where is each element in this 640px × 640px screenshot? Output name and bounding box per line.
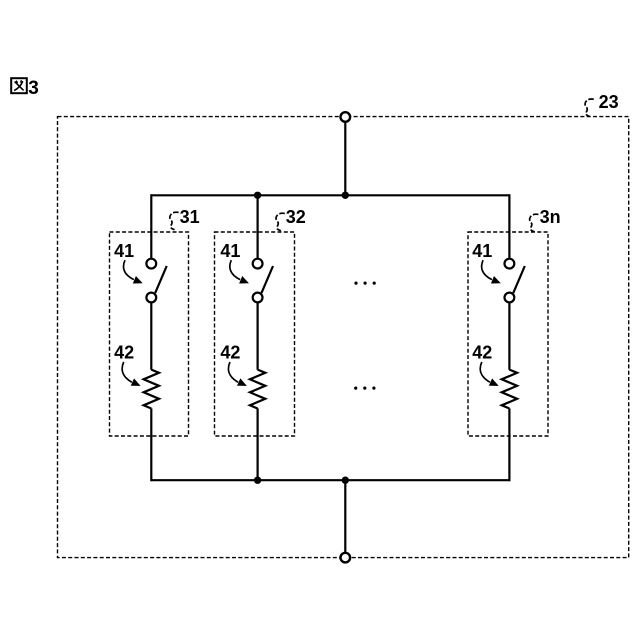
- resistor 42 (32): [250, 370, 265, 409]
- switch 41 top contact (32): [253, 259, 263, 269]
- ellipsis dots lower (between 32 and 3n): [354, 387, 375, 390]
- svg-text:42: 42: [220, 343, 240, 363]
- bottom terminal: [341, 553, 351, 563]
- arrow from label 42 (32): [228, 362, 238, 382]
- svg-text:3: 3: [28, 78, 39, 99]
- wire switch to resistor 31: [150, 302, 152, 369]
- wire bottom bus to bottom terminal: [344, 479, 346, 553]
- svg-text:32: 32: [286, 207, 306, 227]
- wire resistor to bottom bus 32: [257, 408, 259, 481]
- switch 41 top contact (31): [146, 259, 156, 269]
- svg-text:42: 42: [472, 343, 492, 363]
- leader squiggle for label 32: [276, 213, 285, 231]
- leader squiggle for label 3n: [530, 214, 539, 232]
- wire resistor to bottom bus 31: [150, 408, 152, 481]
- bottom bus wire: [151, 479, 509, 481]
- svg-text:31: 31: [180, 207, 200, 227]
- switch 41 blade (31): [155, 266, 167, 293]
- switch 41 bottom contact (32): [253, 293, 263, 303]
- top terminal: [341, 112, 351, 122]
- switch 41 bottom contact (3n): [505, 293, 515, 303]
- leader squiggle for label 31: [170, 212, 179, 230]
- svg-text:41: 41: [114, 241, 134, 261]
- ellipsis dots upper (between 32 and 3n): [354, 282, 375, 285]
- wire bus to switch 32: [257, 194, 259, 259]
- wire bus to switch 31: [150, 194, 152, 259]
- svg-text:41: 41: [472, 241, 492, 261]
- wire resistor to bottom bus 3n: [508, 408, 510, 481]
- arrow from label 41 (3n): [482, 260, 492, 279]
- switch 41 blade (32): [262, 266, 274, 293]
- figure label 図3: [11, 78, 39, 99]
- dashed box 32: [215, 232, 295, 436]
- wire switch to resistor 32: [257, 302, 259, 369]
- wire switch to resistor 3n: [508, 302, 510, 369]
- wire bus to switch 3n: [508, 194, 510, 259]
- switch 41 top contact (3n): [505, 259, 515, 269]
- junction dot top bus / center feed: [342, 192, 349, 199]
- arrow from label 41 (32): [230, 260, 240, 279]
- dashed box 3n: [468, 232, 548, 436]
- arrow from label 42 (31): [122, 362, 132, 382]
- junction dot bottom bus / branch 32: [254, 477, 261, 484]
- leader squiggle for label 23: [585, 99, 594, 117]
- resistor 42 (3n): [502, 370, 517, 409]
- switch 41 bottom contact (31): [146, 293, 156, 303]
- svg-text:3n: 3n: [540, 207, 561, 227]
- svg-text:41: 41: [220, 241, 240, 261]
- outer dashed box 23: [58, 117, 629, 558]
- arrow from label 41 (31): [124, 260, 134, 279]
- arrow from label 42 (3n): [480, 362, 490, 382]
- junction dot bottom bus / center tap: [342, 477, 349, 484]
- svg-text:42: 42: [114, 343, 134, 363]
- switch 41 blade (3n): [513, 266, 525, 293]
- resistor 42 (31): [144, 370, 159, 409]
- top bus wire: [151, 194, 509, 196]
- svg-text:23: 23: [599, 92, 619, 112]
- dashed box 31: [110, 232, 189, 436]
- wire top terminal to top bus: [344, 122, 346, 197]
- junction dot top bus / branch 32: [254, 192, 261, 199]
